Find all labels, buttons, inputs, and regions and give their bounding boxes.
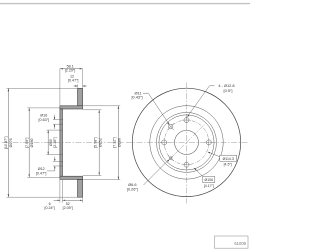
dimension 12 disc thickness [68, 75, 87, 88]
label D6.6 [127, 159, 170, 191]
dimension D152 drum surface [83, 110, 103, 176]
lug hole E D12.8 [205, 138, 214, 147]
svg-text:[0.5″]: [0.5″] [224, 88, 233, 93]
dimension 52 hat depth [63, 198, 83, 210]
svg-text:61009: 61009 [234, 241, 246, 246]
svg-text:[0.26″]: [0.26″] [127, 187, 138, 192]
hat top wall [60, 106, 83, 109]
part number box [215, 236, 249, 248]
lug hole section lines [59, 120, 63, 167]
node right-view-horizontal-centerline [126, 141, 248, 143]
label D114.3 bolt circle [208, 152, 237, 167]
svg-text:[0.47″]: [0.47″] [36, 171, 47, 175]
dimension D276 outer diameter [4, 88, 77, 197]
svg-text:[2.05″]: [2.05″] [63, 206, 73, 210]
label 4-D12.8 [187, 83, 234, 117]
dimension D186 braking surface inner diameter [83, 106, 121, 180]
svg-text:Ø152: Ø152 [99, 138, 103, 147]
lug hole W D12.8 [160, 138, 169, 147]
dimension 6 flange thickness [44, 180, 62, 210]
svg-text:[10.87″]: [10.87″] [4, 137, 8, 150]
lug hole S D12.8 [182, 160, 191, 169]
svg-text:[0.24″]: [0.24″] [44, 206, 54, 210]
svg-text:Ø114.3: Ø114.3 [223, 157, 234, 161]
dimension D60 center bore [46, 130, 62, 155]
mounting flange bar [60, 109, 63, 176]
svg-text:[7.32″]: [7.32″] [113, 137, 117, 148]
hat circle D152 [157, 112, 217, 172]
outer circle D276 [132, 88, 240, 196]
svg-text:[7.09″]: [7.09″] [25, 138, 29, 149]
lug hole N D12.8 [182, 116, 191, 125]
svg-text:[0.43″]: [0.43″] [131, 95, 142, 100]
svg-text:[2.29″]: [2.29″] [65, 68, 76, 72]
svg-text:[4.5″]: [4.5″] [224, 163, 232, 167]
label D11 [131, 91, 169, 125]
dimension D12 lower hole [36, 157, 59, 176]
svg-text:[2.36″]: [2.36″] [53, 137, 57, 148]
wire [0, 3, 250, 5]
svg-text:Ø276: Ø276 [9, 138, 13, 147]
dimension D180 hat diameter [25, 108, 60, 177]
svg-text:[5.98″]: [5.98″] [94, 137, 98, 148]
hole NW D11 [167, 123, 174, 130]
braking surface inner circle D186 [150, 106, 223, 179]
bolt circle D114.3 [164, 120, 209, 165]
node left-view-centerline [2, 142, 124, 144]
svg-text:[0.47″]: [0.47″] [68, 79, 79, 83]
svg-text:[0.63″]: [0.63″] [39, 118, 50, 122]
hat inner circle D140 [159, 115, 214, 170]
svg-text:Ø180: Ø180 [30, 138, 34, 147]
center bore D60 [175, 130, 199, 154]
label D106 [194, 168, 215, 188]
svg-text:Ø186: Ø186 [117, 138, 121, 147]
dimension 58.1 overall height [60, 65, 83, 106]
dimension D16 upper hole [39, 114, 60, 129]
svg-text:[4.17″]: [4.17″] [204, 184, 214, 188]
node right-view-diagonal-centerline [168, 123, 206, 160]
hole SW D6.6 [168, 155, 174, 161]
hat bottom wall [60, 176, 83, 179]
svg-text:Ø106: Ø106 [205, 178, 214, 182]
node right-view-vertical-centerline [186, 83, 188, 204]
disc section top bar [78, 88, 83, 106]
disc section bottom bar [78, 179, 83, 197]
